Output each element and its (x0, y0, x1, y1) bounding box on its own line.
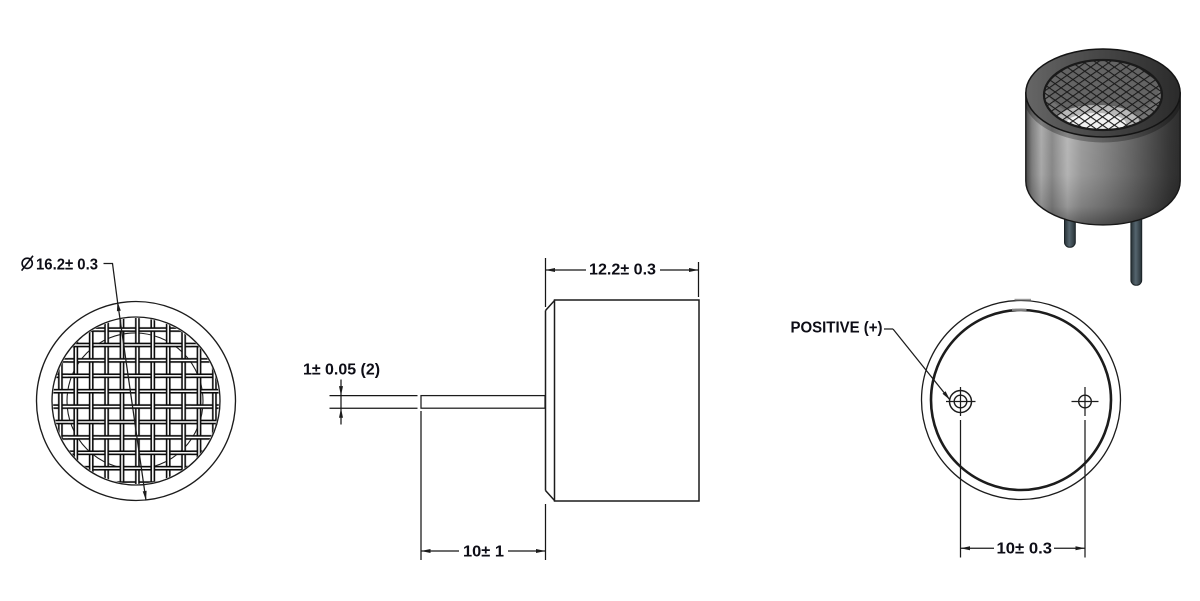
svg-text:1± 0.05 (2): 1± 0.05 (2) (303, 361, 380, 378)
svg-text:10± 0.3: 10± 0.3 (997, 541, 1053, 558)
svg-text:16.2± 0.3: 16.2± 0.3 (36, 257, 98, 274)
svg-text:10± 1: 10± 1 (463, 544, 504, 561)
svg-text:12.2± 0.3: 12.2± 0.3 (589, 262, 656, 279)
svg-text:POSITIVE (+): POSITIVE (+) (791, 320, 883, 337)
